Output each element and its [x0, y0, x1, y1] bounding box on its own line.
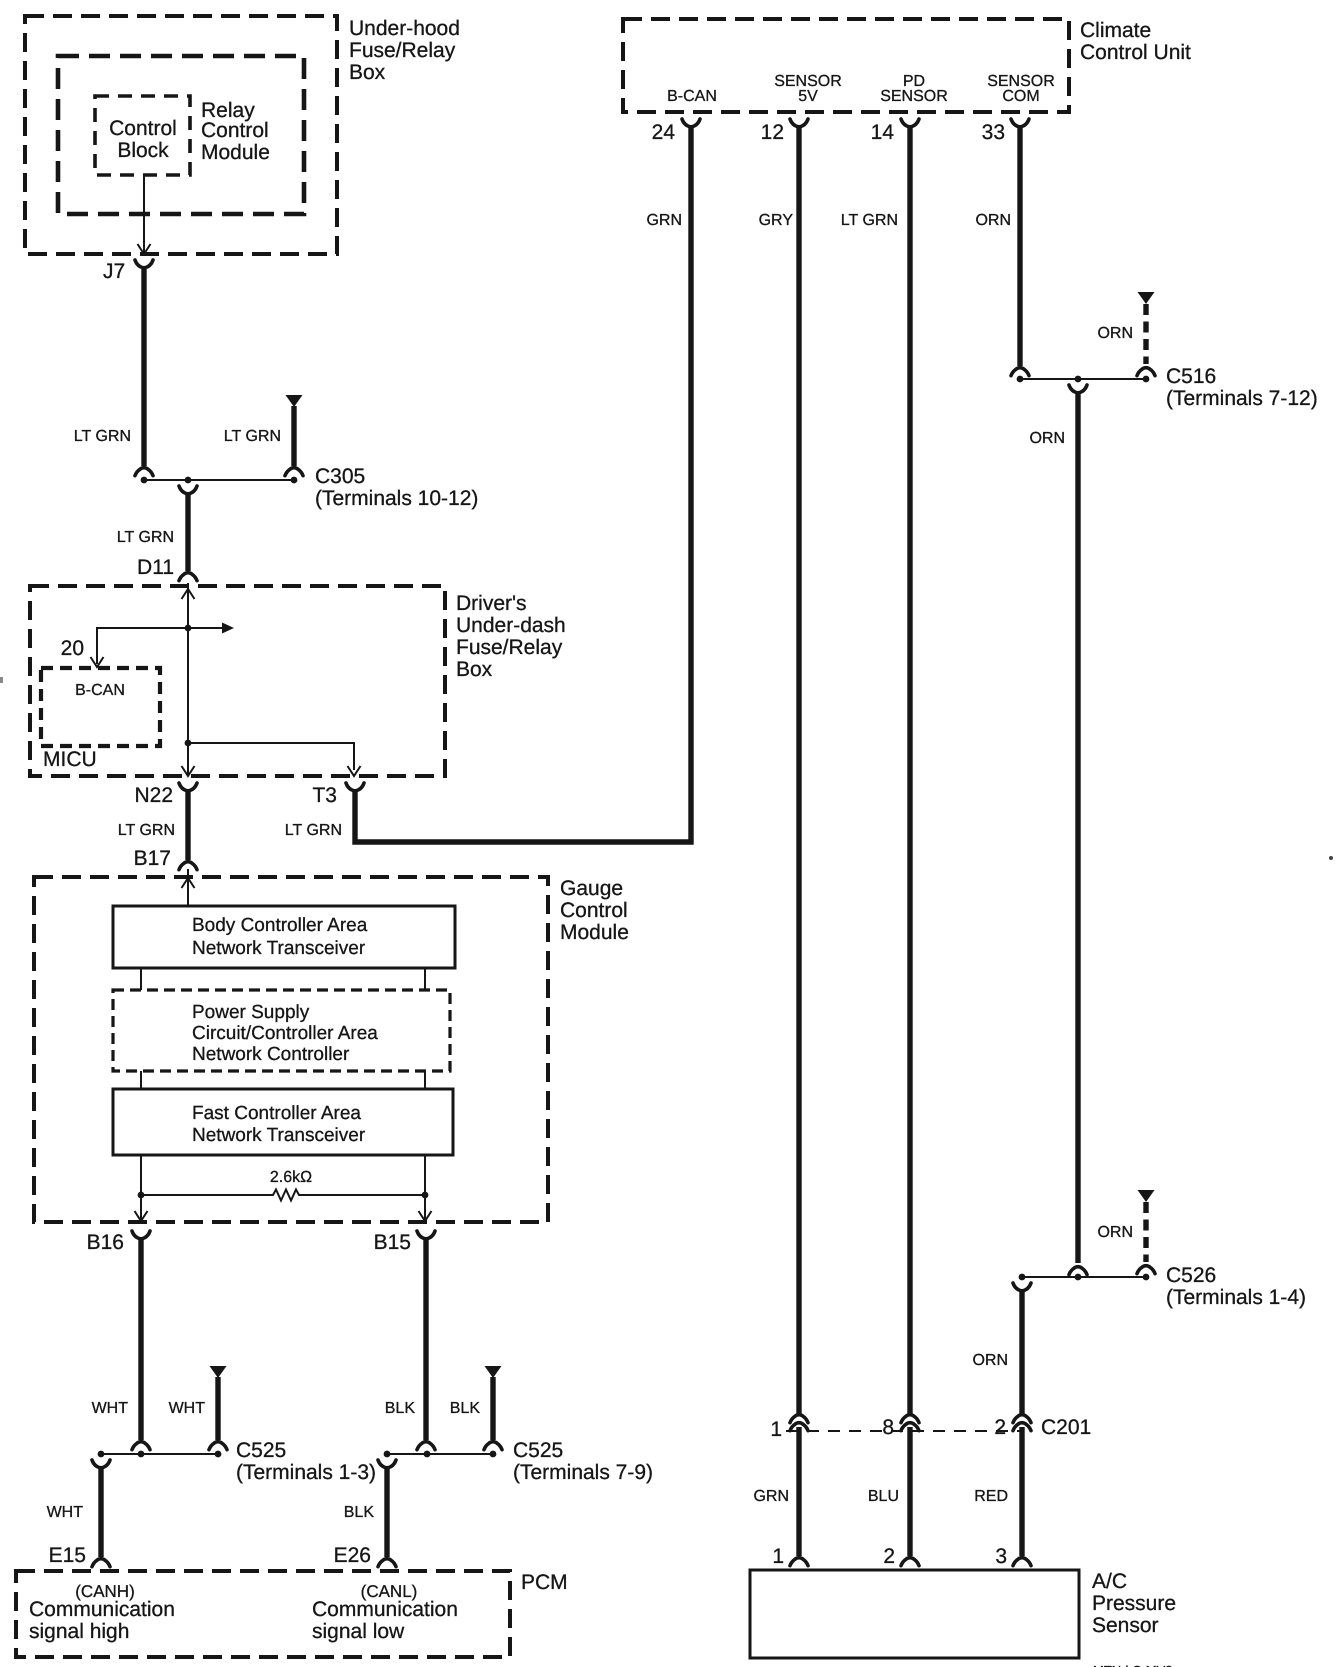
box: Driver's Under-dash Fuse/Relay Box — [30, 586, 445, 776]
svg-text:B17: B17 — [134, 847, 171, 870]
arrowhead exit B16 — [135, 1211, 148, 1221]
wire: branch to T3 — [188, 743, 354, 770]
svg-text:Communication: Communication — [312, 1598, 458, 1621]
svg-text:LT GRN: LT GRN — [117, 529, 174, 546]
svg-text:Network Controller: Network Controller — [192, 1044, 350, 1065]
svg-text:A/C: A/C — [1092, 1570, 1127, 1593]
svg-text:(Terminals 1-3): (Terminals 1-3) — [236, 1461, 376, 1484]
ground stub at C526, ORN dashed — [1137, 1190, 1155, 1274]
svg-text:Gauge: Gauge — [560, 877, 623, 900]
svg-text:3: 3 — [995, 1545, 1007, 1568]
svg-text:Under-dash: Under-dash — [456, 614, 566, 637]
wire: pin 33 to C516, ORN — [1017, 126, 1022, 366]
wire: C305 to D11, LT GRN — [185, 493, 190, 571]
connector pair at C201 pin 1 — [790, 1415, 808, 1431]
label: Gauge Control Module — [560, 877, 629, 944]
wire: C525 to E15, WHT — [98, 1467, 103, 1557]
svg-text:SENSOR: SENSOR — [880, 88, 948, 105]
wire: C525 left junction line — [101, 1453, 218, 1455]
label: pin PD SENSOR — [880, 73, 948, 105]
wire: J7 to C305, LT GRN — [141, 267, 146, 466]
arrowhead exit N22 — [182, 766, 195, 776]
wire: C525 right junction line — [387, 1453, 493, 1455]
box: PCM — [16, 1571, 510, 1657]
wire: C201 to sensor pin3, RED — [1019, 1427, 1024, 1556]
edge dot right — [1329, 856, 1333, 860]
svg-text:Control Unit: Control Unit — [1080, 41, 1191, 64]
label: pin SENSOR COM — [987, 73, 1055, 105]
wire: fast box down left — [140, 1155, 142, 1219]
connector top T3 — [346, 783, 364, 791]
box: Control Block — [95, 96, 190, 175]
wire: C526 junction line — [1022, 1276, 1146, 1278]
connector pair at C201 pin 2 — [1013, 1415, 1031, 1431]
connector top N22 — [179, 783, 197, 791]
svg-text:PCM: PCM — [521, 1571, 568, 1594]
svg-text:B16: B16 — [87, 1231, 124, 1254]
connector pair at C201 pin 8 — [901, 1415, 919, 1431]
svg-text:Body Controller Area: Body Controller Area — [192, 915, 368, 936]
svg-text:LT GRN: LT GRN — [74, 428, 131, 445]
connector bottom B17 — [179, 862, 197, 870]
arrowhead up at D11 entry — [182, 589, 195, 599]
box: Gauge Control Module — [34, 877, 548, 1222]
svg-text:2.6kΩ: 2.6kΩ — [270, 1169, 312, 1186]
box: Fast Controller Area Network Transceiver — [113, 1089, 453, 1155]
label: C525 (Terminals 7-9) — [513, 1439, 653, 1484]
svg-text:Sensor: Sensor — [1092, 1614, 1159, 1637]
svg-text:signal high: signal high — [29, 1620, 129, 1643]
connector bottom pin33 wire at C516 — [1011, 368, 1029, 376]
connector bottom E15 — [92, 1559, 110, 1567]
wire: branch to B-CAN with right arrow — [97, 628, 224, 664]
svg-text:C201: C201 — [1041, 1416, 1091, 1439]
box: Power Supply Circuit/Controller Area Network Controller — [113, 990, 450, 1071]
node dots on resistor line — [138, 1192, 429, 1199]
svg-text:BLK: BLK — [450, 1400, 481, 1417]
box: B-CAN — [41, 668, 160, 746]
svg-text:Module: Module — [560, 921, 629, 944]
svg-text:ORN: ORN — [975, 212, 1011, 229]
svg-text:LT GRN: LT GRN — [118, 822, 175, 839]
svg-text:24: 24 — [652, 121, 676, 144]
svg-text:Box: Box — [349, 61, 386, 84]
wire: pin 12 to C201, GRY — [796, 126, 801, 1415]
label: pin SENSOR 5V — [774, 73, 842, 105]
wire: C525 to E26, BLK — [384, 1467, 389, 1557]
svg-text:ORN: ORN — [1097, 1224, 1133, 1241]
svg-text:E15: E15 — [49, 1544, 86, 1567]
arrowhead exit B15 — [419, 1211, 432, 1221]
connector top B16 — [132, 1231, 150, 1239]
node dots C526 — [1019, 1274, 1150, 1281]
ground stub at C525 right — [484, 1366, 502, 1450]
svg-text:B15: B15 — [374, 1231, 411, 1254]
svg-text:GRY: GRY — [759, 212, 794, 229]
node dots at C305 — [141, 477, 298, 484]
arrowhead exit T3 — [348, 766, 361, 776]
label: A/C Pressure Sensor — [1092, 1570, 1176, 1637]
svg-text:Under-hood: Under-hood — [349, 17, 460, 40]
connector bottom at C526 — [1069, 1267, 1087, 1275]
svg-text:D11: D11 — [137, 556, 174, 579]
svg-text:12: 12 — [761, 121, 784, 144]
connector top B15 — [417, 1231, 435, 1239]
svg-text:20: 20 — [61, 637, 84, 660]
svg-text:E26: E26 — [334, 1544, 371, 1567]
label: Relay Control Module — [201, 99, 270, 164]
svg-text:Power Supply: Power Supply — [192, 1002, 310, 1023]
node dot on branch — [185, 625, 192, 632]
connector top pin 33 — [1011, 119, 1029, 127]
svg-text:33: 33 — [982, 121, 1005, 144]
wire: C201 dashed junction line — [786, 1430, 1020, 1432]
ground stub at C305 — [285, 395, 303, 476]
svg-text:Driver's: Driver's — [456, 592, 527, 615]
svg-text:(Terminals 10-12): (Terminals 10-12) — [315, 487, 478, 510]
label: Climate Control Unit — [1080, 19, 1191, 64]
label: C526 (Terminals 1-4) — [1166, 1264, 1306, 1309]
wire: C305 junction line — [144, 479, 294, 481]
connector top below C305 — [179, 486, 197, 494]
node dots C525 left — [98, 1451, 222, 1458]
svg-text:C525: C525 — [236, 1439, 286, 1462]
svg-text:1: 1 — [772, 1545, 784, 1568]
connector bottom at C525 left main — [132, 1442, 150, 1450]
wire: Control Block to J7 — [143, 175, 145, 252]
ground stub at C516, ORN dashed — [1137, 292, 1155, 376]
label: C305 (Terminals 10-12) — [315, 465, 478, 510]
svg-text:MICU: MICU — [43, 748, 97, 771]
box: Relay Control Module — [58, 56, 304, 214]
label: Communication signal low — [312, 1598, 458, 1643]
wire: B16 to C525, WHT — [138, 1238, 143, 1440]
svg-text:C305: C305 — [315, 465, 365, 488]
connector bottom at C525 right main — [417, 1442, 435, 1450]
box: Under-hood Fuse/Relay Box — [25, 16, 337, 254]
node dots C525 right — [384, 1451, 497, 1458]
ground stub at C525 left — [209, 1366, 227, 1450]
node dots C516 — [1017, 376, 1150, 383]
svg-text:Control: Control — [109, 117, 177, 140]
label: Under-hood Fuse/Relay Box — [349, 17, 460, 84]
connector top J7 — [135, 260, 153, 268]
svg-text:Fast Controller Area: Fast Controller Area — [192, 1103, 361, 1124]
svg-text:(Terminals 7-9): (Terminals 7-9) — [513, 1461, 653, 1484]
svg-text:C525: C525 — [513, 1439, 563, 1462]
svg-text:GRN: GRN — [646, 212, 682, 229]
wire: C201 to sensor pin1, GRN — [796, 1427, 801, 1556]
resistor 2.6k ohm between B16/B15 lines — [141, 1190, 425, 1201]
svg-text:T3: T3 — [312, 784, 337, 807]
wire: C516 to C526, ORN — [1075, 392, 1080, 1263]
connector bottom sensor pin2 — [901, 1558, 919, 1566]
svg-text:Circuit/Controller Area: Circuit/Controller Area — [192, 1023, 378, 1044]
label: C525 (Terminals 1-3) — [236, 1439, 376, 1484]
svg-text:BLU: BLU — [868, 1488, 899, 1505]
wire: MICU internal vertical — [187, 583, 189, 775]
svg-text:GRN: GRN — [753, 1488, 789, 1505]
svg-text:WHT: WHT — [92, 1400, 129, 1417]
svg-text:Fuse/Relay: Fuse/Relay — [456, 636, 563, 659]
connector top pin 24 — [682, 119, 700, 127]
svg-text:Module: Module — [201, 141, 270, 164]
connector top E15 wire — [92, 1460, 110, 1468]
svg-text:Climate: Climate — [1080, 19, 1151, 42]
svg-text:(Terminals 7-12): (Terminals 7-12) — [1166, 387, 1318, 410]
connector top pin 12 — [790, 119, 808, 127]
label: Fast Controller Area Network Transceiver — [192, 1103, 366, 1146]
svg-text:(Terminals 1-4): (Terminals 1-4) — [1166, 1286, 1306, 1309]
label: Body Controller Area Network Transceiver — [192, 915, 368, 959]
box: A/C Pressure Sensor — [750, 1570, 1079, 1658]
svg-text:B-CAN: B-CAN — [667, 88, 717, 105]
connector top pin 14 — [901, 119, 919, 127]
wire: B17 into Body transceiver — [187, 869, 189, 906]
node dot on T3 branch — [185, 740, 192, 747]
svg-text:N22: N22 — [134, 784, 173, 807]
label: Communication signal high — [29, 1598, 175, 1643]
wire: power to fast links — [141, 1071, 425, 1089]
svg-text:LT GRN: LT GRN — [841, 212, 898, 229]
svg-text:WHT: WHT — [169, 1400, 206, 1417]
label: Control Block — [109, 117, 177, 162]
wire: B15 to C525, BLK — [423, 1238, 428, 1440]
svg-text:Network Transceiver: Network Transceiver — [192, 1125, 366, 1146]
arrowhead right (filled) — [222, 623, 234, 634]
svg-text:C516: C516 — [1166, 365, 1216, 388]
arrowhead into B-CAN box — [91, 657, 104, 667]
wire: C516 junction line — [1020, 378, 1146, 380]
svg-text:Network Transceiver: Network Transceiver — [192, 938, 366, 959]
svg-text:Box: Box — [456, 658, 493, 681]
label: Driver's Under-dash Fuse/Relay Box — [456, 592, 566, 681]
svg-text:COM: COM — [1002, 88, 1039, 105]
svg-text:ORN: ORN — [1029, 430, 1065, 447]
svg-text:Control: Control — [201, 119, 269, 142]
svg-text:Fuse/Relay: Fuse/Relay — [349, 39, 456, 62]
wire: body to power links — [141, 968, 425, 990]
connector top below C516 — [1069, 385, 1087, 393]
svg-text:Communication: Communication — [29, 1598, 175, 1621]
svg-text:LT GRN: LT GRN — [285, 822, 342, 839]
connector bottom D11 — [179, 573, 197, 581]
svg-text:MTN-hS-MV3: MTN-hS-MV3 — [1093, 1663, 1172, 1667]
svg-text:B-CAN: B-CAN — [75, 682, 125, 699]
svg-text:RED: RED — [974, 1488, 1008, 1505]
label: Power Supply Circuit/Controller Area Network Controller — [192, 1002, 378, 1065]
svg-text:Pressure: Pressure — [1092, 1592, 1176, 1615]
box: Climate Control Unit — [623, 19, 1069, 112]
svg-text:2: 2 — [883, 1545, 895, 1568]
svg-text:2: 2 — [994, 1416, 1006, 1439]
svg-text:J7: J7 — [103, 260, 125, 283]
arrowhead at J7 entry — [138, 244, 151, 254]
svg-text:C526: C526 — [1166, 1264, 1216, 1287]
box: Body Controller Area Network Transceiver — [113, 906, 455, 968]
connector top below C526 — [1013, 1283, 1031, 1291]
edge mark left — [0, 677, 3, 683]
svg-text:Control: Control — [560, 899, 628, 922]
wire: N22 to B17, LT GRN — [185, 790, 190, 860]
wire: fast box down right — [424, 1155, 426, 1219]
connector top E26 wire — [378, 1460, 396, 1468]
svg-text:BLK: BLK — [385, 1400, 416, 1417]
svg-text:signal low: signal low — [312, 1620, 405, 1643]
label: C516 (Terminals 7-12) — [1166, 365, 1318, 410]
wire: C201 to sensor pin2, BLU — [907, 1427, 912, 1556]
connector bottom at C305 left — [135, 468, 153, 476]
connector bottom sensor pin1 — [790, 1558, 808, 1566]
svg-text:14: 14 — [871, 121, 895, 144]
wire: T3 elbow to Climate B-CAN pin 24, LT GRN/GRN — [355, 126, 691, 842]
svg-text:ORN: ORN — [972, 1352, 1008, 1369]
svg-text:LT GRN: LT GRN — [224, 428, 281, 445]
wire: pin 14 to C201, LT GRN — [907, 126, 912, 1415]
svg-text:5V: 5V — [798, 88, 818, 105]
arrowhead up at gauge entry — [182, 878, 195, 888]
svg-text:BLK: BLK — [344, 1504, 375, 1521]
connector bottom sensor pin3 — [1013, 1558, 1031, 1566]
svg-text:1: 1 — [770, 1418, 782, 1441]
svg-text:Block: Block — [117, 139, 169, 162]
connector bottom E26 — [378, 1559, 396, 1567]
wire: C526 to C201, ORN — [1019, 1290, 1024, 1415]
svg-text:8: 8 — [882, 1416, 894, 1439]
svg-text:WHT: WHT — [47, 1504, 84, 1521]
svg-text:ORN: ORN — [1097, 325, 1133, 342]
